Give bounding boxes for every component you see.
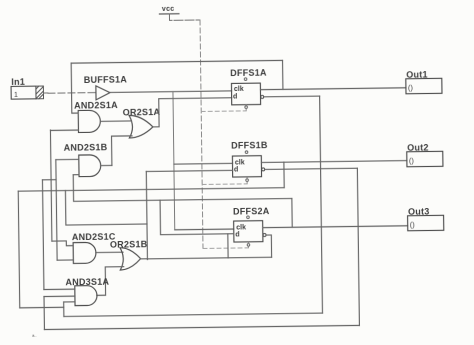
svg-text:BUFFS1A: BUFFS1A — [84, 74, 128, 85]
output port Out1 label — [406, 70, 428, 80]
wire feedback q1 drop to AND2S1A in1 — [71, 63, 78, 113]
wire clear net DFFS2A — [203, 247, 248, 250]
svg-text:DFFS1B: DFFS1B — [231, 140, 268, 150]
or-gate OR2S1B label — [110, 239, 148, 249]
svg-text:OR2S1B: OR2S1B — [110, 239, 148, 249]
svg-text:clk: clk — [235, 159, 245, 166]
and-gate AND3S1A — [75, 286, 97, 306]
svg-text:a..: a.. — [32, 333, 37, 338]
wire AND2S1B out riser to OR2S1A in2 — [112, 136, 133, 166]
vcc label — [162, 6, 175, 13]
flip-flop U2 DFFS1A — [231, 83, 260, 105]
flip-flop U4 DFFS2A label — [233, 206, 270, 216]
pin DFFS1B qbar bubble — [262, 168, 265, 171]
svg-text:(): () — [408, 83, 414, 92]
svg-text:1: 1 — [14, 92, 18, 99]
svg-text:AND2S1B: AND2S1B — [64, 142, 108, 153]
wire in3 riser — [63, 302, 65, 316]
svg-text:(): () — [410, 220, 416, 229]
wire feedback rail left upper — [42, 180, 43, 290]
wire AND2S1B in1 vertical rail — [56, 160, 57, 260]
svg-text:In1: In1 — [11, 77, 25, 87]
wire AND3S1A in2 — [44, 295, 75, 297]
wire left drop x18 — [18, 191, 20, 308]
artifact mark — [32, 333, 37, 338]
svg-text:d: d — [234, 167, 238, 174]
wire bottom link y305 — [20, 306, 64, 309]
wire bottom row y314 — [64, 313, 323, 316]
output port Out3 label — [408, 207, 430, 217]
wire clock vertical branch — [173, 92, 175, 230]
and-gate AND3S1A label — [65, 277, 109, 288]
output port Out3 — [408, 215, 444, 230]
or-gate OR2S1B — [120, 247, 141, 270]
svg-text:DFFS2A: DFFS2A — [233, 206, 270, 216]
output port Out1 — [406, 78, 442, 93]
or-gate OR2S1A — [129, 115, 153, 138]
buffer U1 BUFFS1A label — [84, 74, 128, 85]
flip-flop U3 DFFS1B — [232, 156, 261, 177]
wire DFFS2A qbar loop — [267, 235, 272, 257]
wire d2 into DFFS1B — [146, 170, 232, 171]
pin clear DFFS1B — [246, 179, 249, 182]
svg-text:(): () — [409, 156, 415, 165]
pin DFFS2A qbar bubble — [263, 234, 266, 237]
pin clear DFFS1A — [245, 106, 248, 109]
wire bottom row y327 — [44, 325, 359, 329]
flip-flop U4 DFFS2A — [234, 221, 263, 242]
and-gate AND2S1A — [78, 110, 100, 132]
wire row B from AND2S1B in2 — [73, 172, 292, 201]
wire AND2S1A in2 — [50, 129, 78, 131]
wire DFFS1A qbar — [264, 95, 319, 98]
svg-text:clk: clk — [236, 224, 246, 231]
pin preset DFFS2A — [247, 216, 250, 219]
wire qbar2 vertical — [357, 168, 359, 325]
and-gate AND2S1B — [79, 155, 101, 177]
wire DFFS1A q to Out1 — [260, 88, 405, 90]
wire qbar1 vertical — [320, 96, 323, 313]
wire feedback rail left lower — [43, 297, 45, 330]
or-gate OR2S1A label — [123, 107, 161, 117]
wire d3 riser — [227, 234, 229, 258]
wire clear net DFFS1B — [202, 183, 247, 186]
wire cross link y177 — [42, 179, 56, 181]
wire clock to DFFS1A clk — [110, 91, 232, 93]
wire clear net DFFS1A — [201, 110, 246, 113]
input port In1 — [11, 86, 36, 99]
svg-text:DFFS1A: DFFS1A — [230, 68, 267, 78]
wire DFFS1B qbar — [265, 168, 357, 169]
wire AND2S1B in1 — [56, 158, 79, 160]
and-gate AND2S1B label — [64, 142, 108, 153]
wire DFFS2A q to Out3 — [263, 226, 408, 228]
wire AND2S1C in2 — [57, 259, 73, 261]
wire feedback q1 top rail — [71, 60, 282, 63]
wire clock to DFFS2A clk — [175, 228, 234, 231]
wire AND2S1B in2 — [73, 174, 79, 176]
svg-text:vcc: vcc — [162, 6, 175, 13]
pin clear DFFS2A — [247, 244, 250, 247]
wire AND3S1A in1 — [44, 288, 75, 290]
pin DFFS1A qbar bubble — [261, 95, 264, 98]
svg-text:AND2S1A: AND2S1A — [74, 100, 118, 111]
wire AND2S1A in2 vertical — [50, 130, 51, 241]
flip-flop U2 DFFS1A label — [230, 68, 267, 78]
svg-text:clk: clk — [234, 86, 244, 93]
vcc bar — [159, 13, 178, 15]
wire AND3S1A out riser to OR2S1B in2 — [96, 267, 124, 296]
wire OR2S1B out — [141, 258, 148, 260]
input port In1 connector hatch — [36, 86, 44, 99]
wire feedback row to d3 riser — [147, 257, 271, 259]
and-gate AND2S1C — [73, 242, 96, 263]
svg-text:OR2S1A: OR2S1A — [123, 107, 161, 117]
svg-text:d: d — [235, 232, 239, 239]
svg-text:d: d — [233, 93, 237, 100]
output port Out2 — [407, 151, 443, 166]
wire AND2S1C out jog to OR2S1B — [96, 251, 123, 253]
wire long feedback row A — [18, 188, 284, 191]
and-gate AND2S1A label — [74, 100, 118, 111]
wire vcc vertical rail — [200, 20, 203, 248]
wire OR2S1A out riser to DFFS1A d — [153, 98, 232, 127]
pin preset DFFS1A — [244, 78, 247, 81]
wire AND2S1A out to OR2S1A — [100, 120, 130, 122]
flip-flop U3 DFFS1B label — [231, 140, 268, 150]
wire AND3S1A in3 — [64, 301, 75, 303]
pin preset DFFS1B — [245, 151, 248, 154]
buffer U1 BUFFS1A — [96, 86, 110, 100]
wire q2 drop — [283, 162, 285, 187]
wire row C to d2 — [65, 189, 147, 225]
wire clock to DFFS1B clk — [174, 162, 233, 165]
output port Out2 label — [407, 143, 429, 153]
wire AND2S1C in1 jog — [52, 241, 73, 246]
wire AND2S1B out — [101, 164, 112, 166]
wire DFFS1B q to Out2 — [261, 161, 406, 163]
wire In1 to buffer — [43, 92, 47, 94]
wire d2 vertical — [146, 171, 147, 259]
node In1 label — [11, 77, 25, 87]
wire q1 riser to top rail — [282, 60, 284, 89]
wire branch to DFFS2A d — [160, 199, 234, 234]
wire q2 jog down to Out3 line — [291, 198, 293, 227]
and-gate AND2S1C label — [72, 232, 116, 243]
wire vcc stem — [169, 13, 200, 20]
